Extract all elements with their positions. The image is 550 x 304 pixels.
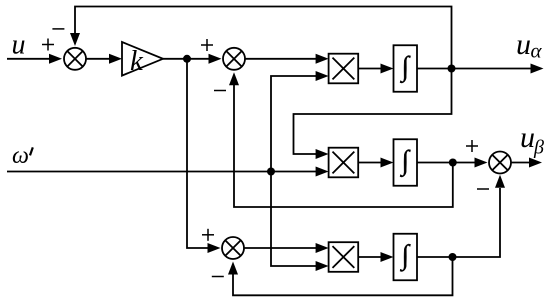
multiplier M2: [329, 148, 359, 178]
wire: node A down to summer S4: [187, 59, 209, 248]
gain k (triangle): [122, 42, 163, 76]
plus sign at S1: [42, 39, 54, 51]
wire: node ua down and across to M2 input 1: [294, 69, 452, 155]
minus sign at S2: [214, 90, 226, 92]
node A (branch after gain k): [183, 55, 191, 63]
wire: omega input line to M2 input 2: [7, 171, 317, 173]
plus sign at S2: [201, 39, 213, 51]
label u_beta: [520, 121, 544, 159]
wire: u input to summer S1: [7, 58, 51, 60]
summing junction S4: [222, 237, 244, 259]
wire: u_beta output arrow: [511, 162, 531, 164]
svg-text:β: β: [533, 137, 544, 159]
svg-text:ω: ω: [12, 143, 29, 169]
wire: S4 output to multiplier M3 input 1: [244, 247, 317, 249]
multiplier M1: [329, 54, 359, 84]
wire: I2 output to node: [417, 162, 453, 164]
integrator I2: [394, 139, 418, 186]
node after I2: [449, 159, 457, 167]
wire: u_alpha output arrow: [452, 68, 533, 70]
wire: I3 node right and up to S3 minus input: [453, 188, 501, 257]
plus sign at S4: [202, 229, 214, 241]
wire: I2 node feedback down-left-up to S2 minus input: [234, 85, 453, 207]
integrator I1: [394, 45, 418, 92]
wire: M1 to integrator I1: [358, 68, 382, 70]
svg-text:k: k: [130, 45, 144, 77]
svg-text:α: α: [531, 39, 543, 63]
integrator I3: [394, 234, 418, 281]
plus sign at S3: [466, 140, 478, 152]
node after I3: [449, 253, 457, 261]
minus sign at S1: [52, 28, 64, 30]
multiplier M3: [329, 242, 359, 272]
wire: S1 to gain k: [86, 58, 111, 60]
svg-text:u: u: [12, 30, 26, 61]
summing junction S2: [223, 48, 245, 70]
wire: M2 to integrator I2: [358, 162, 382, 164]
svg-text:u: u: [516, 28, 531, 61]
wire: S2 output to multiplier M1 input 1: [245, 58, 317, 60]
wire: feedback from node ua over the top to S1 minus input: [75, 7, 452, 69]
wire: I1 output to node ua: [417, 68, 452, 70]
wire: I3 output to node: [417, 256, 453, 258]
minus sign at S3: [477, 188, 489, 190]
wire: M3 to integrator I3: [358, 256, 382, 258]
wire: node to summer S3 plus input: [453, 162, 476, 164]
wire: omega node branch down to M3 input 2: [271, 172, 317, 267]
label u_alpha: [516, 28, 543, 63]
node ua (output of I1): [448, 65, 456, 73]
wire: k output to summer S2: [163, 58, 210, 60]
minus sign at S4: [212, 276, 224, 278]
wire: omega node branch up to M1 input 2: [271, 76, 317, 172]
summing junction S3: [489, 152, 511, 174]
wire: I3 node feedback down-left-up to S4 minus input: [233, 257, 453, 295]
node omega (branch on omega line): [267, 168, 275, 176]
summing junction S1: [64, 48, 86, 70]
svg-text:u: u: [520, 121, 535, 154]
